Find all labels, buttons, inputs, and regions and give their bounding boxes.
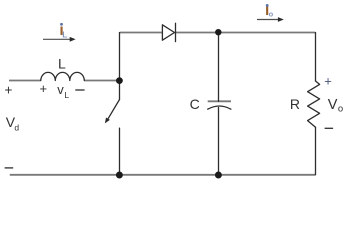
svg-text:+: + [324, 73, 332, 88]
svg-text:L: L [64, 90, 69, 100]
svg-text:L: L [62, 30, 67, 40]
svg-text:v: v [57, 82, 64, 97]
svg-text:o: o [338, 103, 343, 114]
svg-text:V: V [328, 97, 338, 113]
svg-text:C: C [190, 96, 200, 112]
svg-text:L: L [58, 56, 66, 72]
svg-text:R: R [290, 96, 300, 112]
svg-text:+: + [4, 83, 12, 98]
svg-text:o: o [269, 10, 274, 19]
svg-text:+: + [40, 81, 48, 96]
svg-text:d: d [14, 123, 19, 133]
